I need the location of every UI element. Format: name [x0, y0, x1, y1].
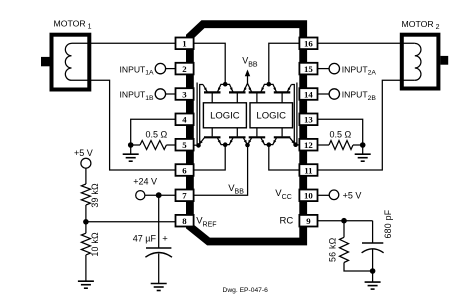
svg-text:+: +: [162, 234, 168, 245]
svg-text:Dwg. EP-047-6: Dwg. EP-047-6: [223, 287, 269, 294]
svg-text:14: 14: [304, 89, 313, 99]
svg-text:2: 2: [182, 64, 187, 74]
svg-text:5: 5: [182, 140, 187, 150]
svg-text:INPUT2A: INPUT2A: [342, 64, 377, 76]
svg-text:0.5 Ω: 0.5 Ω: [330, 130, 352, 140]
svg-text:8: 8: [182, 216, 187, 226]
svg-text:10: 10: [304, 191, 313, 201]
svg-text:0.5 Ω: 0.5 Ω: [146, 130, 168, 140]
svg-text:10 kΩ: 10 kΩ: [90, 232, 100, 257]
svg-text:1: 1: [182, 39, 186, 49]
svg-text:INPUT1B: INPUT1B: [120, 90, 155, 102]
svg-text:+5 V: +5 V: [343, 190, 362, 200]
svg-text:INPUT2B: INPUT2B: [342, 90, 377, 102]
svg-text:RC: RC: [280, 216, 294, 227]
svg-text:4: 4: [182, 115, 187, 125]
svg-text:VCC: VCC: [275, 188, 291, 201]
svg-text:MOTOR 2: MOTOR 2: [402, 19, 440, 31]
svg-text:56 kΩ: 56 kΩ: [327, 237, 337, 262]
svg-text:12: 12: [304, 140, 313, 150]
svg-text:47 µF: 47 µF: [133, 234, 157, 244]
svg-text:6: 6: [182, 165, 187, 175]
svg-text:INPUT1A: INPUT1A: [120, 64, 155, 76]
svg-text:LOGIC: LOGIC: [210, 111, 240, 122]
svg-text:13: 13: [304, 115, 313, 125]
svg-text:7: 7: [182, 191, 187, 201]
svg-text:11: 11: [304, 165, 312, 175]
svg-text:3: 3: [182, 89, 187, 99]
svg-text:VREF: VREF: [196, 216, 216, 229]
svg-text:39 kΩ: 39 kΩ: [90, 183, 100, 208]
svg-text:680 pF: 680 pF: [383, 209, 393, 238]
svg-text:+24 V: +24 V: [133, 176, 157, 186]
svg-text:9: 9: [306, 216, 311, 226]
svg-text:VBB: VBB: [228, 183, 244, 196]
svg-text:15: 15: [304, 64, 313, 74]
svg-text:MOTOR 1: MOTOR 1: [54, 19, 92, 31]
svg-text:+5 V: +5 V: [74, 148, 93, 158]
svg-text:VBB: VBB: [242, 56, 258, 69]
svg-text:LOGIC: LOGIC: [256, 111, 286, 122]
svg-text:16: 16: [304, 39, 313, 49]
